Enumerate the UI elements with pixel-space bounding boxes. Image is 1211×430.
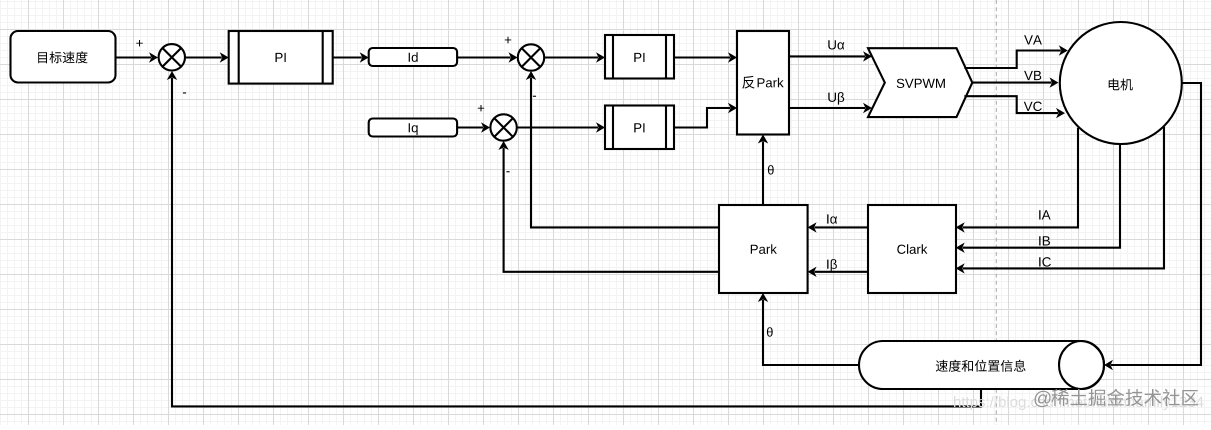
wire IC motor to Clark [956,127,1164,274]
Iq reference box [369,119,457,137]
wire PI3 to inverse Park [674,103,737,128]
wire Id to J2 [457,52,517,62]
wire VA SVPWM to motor [964,45,1067,68]
label VA [1024,35,1042,44]
wire d-axis feedback Park to J2 [526,71,719,227]
page boundary dashed line [995,0,997,425]
faint URL watermark [954,396,1204,410]
plus label at J3 [478,105,484,111]
minus label at J2 [533,96,536,97]
label U-beta [828,92,844,105]
wire VB SVPWM to motor [972,77,1058,87]
wire theta Park to inverse Park [758,135,768,206]
wire U-beta to SVPWM [789,103,872,113]
wire IA motor to Clark [956,128,1078,233]
wire J3 to PI3 [517,122,605,132]
PI block PI2 (d-axis) [605,35,674,79]
wire I-beta Clark to Park [808,267,868,277]
theta label (lower) [767,327,773,337]
wire PI1 to Id [333,52,369,62]
target speed box 目标速度 [11,31,116,83]
summing junction J3 (q axis) [490,114,516,140]
wire motor to position sensor [1104,83,1201,370]
motor circle 电机 [1060,22,1182,144]
wire IB motor to Clark [956,145,1120,253]
minus label at J3 [506,171,509,172]
wire I-alpha Clark to Park [808,222,868,232]
label IB [1039,236,1050,245]
Park transform block [719,205,808,293]
PI block PI1 (speed loop) [229,31,333,84]
plus label at J2 [505,37,511,43]
summing junction J1 [159,44,185,70]
plus label at J1 [136,40,142,46]
wire q-axis feedback Park to J3 [498,141,719,272]
wire J1 to PI1 [185,52,229,62]
speed and position info capsule 速度和位置信息 [859,341,1104,389]
summing junction J2 (d axis) [518,44,544,70]
inverse Park block 反Park [737,31,789,135]
wire target-speed to J1 [116,52,159,62]
label IC [1039,257,1051,267]
wire speed feedback sensor to J1 [167,71,981,406]
minus label at J1 [183,92,186,93]
wire Iq to J3 [457,122,490,132]
theta label (upper) [768,165,774,175]
label I-beta [827,259,837,272]
label I-alpha [827,214,837,223]
label IA [1039,210,1050,219]
Clark transform block [868,205,956,293]
wire theta sensor to Park [758,293,859,365]
gray watermark @稀土掘金技术社区 [1035,389,1199,407]
wire PI2 to inverse Park [674,52,737,62]
wire U-alpha to SVPWM [789,51,872,61]
PI block PI3 (q-axis) [605,106,674,150]
wire J2 to PI2 [545,52,606,62]
label VB [1024,71,1041,80]
label VC [1024,102,1042,112]
SVPWM block [868,48,972,117]
label U-alpha [828,40,844,49]
wire VC SVPWM to motor [964,96,1065,118]
Id reference box [369,48,457,66]
